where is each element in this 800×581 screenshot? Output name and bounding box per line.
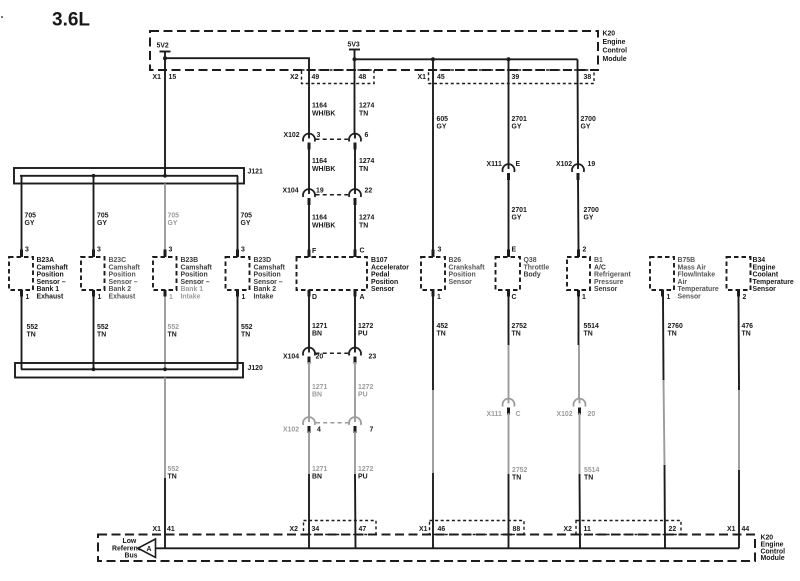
svg-text:GY: GY [97, 220, 107, 227]
svg-text:23: 23 [369, 354, 377, 361]
svg-text:5V3: 5V3 [348, 42, 360, 49]
label 2701 GY lower [512, 207, 527, 222]
sensor B23B label [181, 257, 213, 301]
svg-text:X104: X104 [283, 188, 299, 195]
svg-text:X102: X102 [557, 411, 573, 418]
sensor B107 box [297, 257, 368, 290]
svg-text:Camshaft: Camshaft [254, 264, 286, 271]
svg-text:Bus: Bus [125, 553, 138, 560]
svg-text:TN: TN [168, 474, 177, 481]
wire 476 TN to pin 44 [738, 470, 740, 548]
label 552 TN c gray [168, 324, 180, 339]
svg-text:GY: GY [168, 220, 178, 227]
svg-text:4: 4 [317, 427, 321, 434]
svg-text:Sensor: Sensor [753, 286, 777, 293]
sensor B75B box [650, 257, 674, 290]
connector X102 labels 4 7 [283, 427, 374, 434]
wire 605 GY pin X1-45 to B26 [432, 59, 434, 249]
speck [1, 16, 3, 18]
svg-text:X1: X1 [153, 526, 162, 533]
svg-text:TN: TN [97, 332, 106, 339]
wire 1274 TN lower [354, 204, 356, 250]
svg-text:TN: TN [584, 475, 593, 482]
label 1272 PU gray [358, 384, 373, 399]
svg-text:1272: 1272 [358, 323, 373, 330]
connector X102 labels 3 6 [284, 132, 369, 139]
svg-text:3: 3 [241, 247, 245, 254]
svg-text:88: 88 [513, 526, 521, 533]
svg-text:TN: TN [584, 331, 593, 338]
svg-text:E: E [516, 161, 521, 168]
label 1274 TN [359, 103, 374, 118]
label 1164 WH/BK lower [312, 215, 335, 230]
svg-text:46: 46 [438, 526, 446, 533]
svg-text:452: 452 [437, 323, 449, 330]
sensor B34 label [753, 257, 794, 293]
pin X1-44 [727, 526, 749, 533]
svg-text:GY: GY [437, 124, 447, 131]
connector X104 labels 20 23 [283, 354, 376, 361]
B107 pin A stub [354, 290, 357, 297]
label 476 TN [742, 323, 754, 338]
wire 1272 PU from A [354, 297, 356, 348]
svg-text:44: 44 [742, 526, 750, 533]
label 552 TN low [168, 466, 180, 481]
junction dot drop to pin 45 [431, 57, 435, 61]
svg-text:1274: 1274 [359, 103, 374, 110]
svg-text:TN: TN [742, 331, 751, 338]
svg-text:X102: X102 [556, 161, 572, 168]
B75B pin 1 stub [661, 290, 664, 297]
wire 552 TN J120 to ECM gray [164, 378, 166, 479]
svg-text:X102: X102 [283, 427, 299, 434]
junction dot J120 a [92, 367, 96, 371]
pin X2-49 [290, 74, 319, 81]
svg-text:3: 3 [317, 132, 321, 139]
B107 pin F stub [308, 250, 311, 258]
svg-text:TN: TN [168, 332, 177, 339]
B107 pin D stub [308, 290, 311, 297]
svg-text:PU: PU [358, 392, 368, 399]
svg-text:E: E [512, 247, 517, 254]
svg-text:3: 3 [25, 247, 29, 254]
wire 705 GY to B23A [21, 176, 23, 250]
wire 705 GY to B23C [93, 176, 95, 250]
svg-text:2700: 2700 [581, 116, 596, 123]
svg-text:Position: Position [371, 279, 398, 286]
svg-text:D: D [312, 294, 317, 301]
svg-text:49: 49 [312, 74, 320, 81]
label 1271 BN gray [312, 384, 327, 399]
label 452 TN [437, 323, 449, 338]
connector X102 link dashes [316, 138, 349, 140]
wire 552 TN B23D to J120 [237, 297, 239, 370]
B1 pin 1 stub [577, 290, 580, 297]
svg-text:Bank 1: Bank 1 [181, 286, 204, 293]
label 705 GY c gray [168, 213, 180, 228]
sensor B23C box [81, 257, 105, 290]
sensor B23B box [153, 257, 177, 290]
svg-text:Sensor –: Sensor – [109, 279, 138, 286]
connector X104 link dashes [316, 194, 349, 196]
svg-text:552: 552 [241, 324, 253, 331]
svg-text:X111: X111 [487, 161, 502, 168]
svg-text:B107: B107 [371, 257, 388, 264]
svg-text:1271: 1271 [312, 384, 327, 391]
svg-text:GY: GY [512, 124, 522, 131]
splice pack J121 [14, 168, 244, 184]
wire branch 5V3 to pins 45 39 38 [355, 58, 578, 60]
svg-text:B75B: B75B [678, 257, 696, 264]
svg-text:Exhaust: Exhaust [109, 294, 137, 301]
svg-text:C: C [360, 248, 365, 255]
wire 2752 TN gray low [508, 413, 510, 474]
svg-text:X111: X111 [487, 411, 502, 418]
sensor B75B label [678, 257, 719, 301]
svg-text:1272: 1272 [358, 466, 373, 473]
svg-text:2701: 2701 [512, 207, 527, 214]
svg-text:3: 3 [438, 247, 442, 254]
svg-text:605: 605 [437, 116, 449, 123]
sensor Q38 box [496, 257, 521, 290]
connector X111 pin E [508, 164, 510, 169]
svg-text:X1: X1 [418, 74, 427, 81]
svg-text:41: 41 [167, 526, 175, 533]
connector X104 pin 22 [354, 189, 356, 194]
wire 2701 GY lower [508, 179, 510, 250]
svg-text:1164: 1164 [312, 158, 327, 165]
svg-text:552: 552 [97, 324, 109, 331]
svg-text:2700: 2700 [584, 207, 599, 214]
label 1271 BN low [312, 466, 327, 481]
wire 552 TN B23B to J120 gray [164, 297, 166, 370]
svg-text:GY: GY [581, 124, 591, 131]
label 1164 WH/BK [312, 103, 335, 118]
svg-text:Sensor: Sensor [594, 286, 618, 293]
svg-text:Pedal: Pedal [371, 272, 389, 279]
label 1274 TN lower [359, 215, 374, 230]
svg-text:Exhaust: Exhaust [37, 294, 65, 301]
svg-text:Camshaft: Camshaft [181, 264, 213, 271]
svg-text:Body: Body [524, 272, 541, 279]
wire branch 5V2 to pin X2-49 [165, 58, 309, 134]
svg-text:WH/BK: WH/BK [312, 223, 335, 230]
svg-text:7: 7 [370, 427, 374, 434]
svg-text:Air: Air [678, 279, 688, 286]
wire 1271 BN to pin 34 [308, 474, 310, 548]
junction dot J121 [92, 174, 96, 178]
sensor B107 label [371, 257, 409, 293]
label 1271 BN [312, 323, 327, 338]
connector X102-20 labels gray [557, 411, 596, 418]
connector outline pins 45-39-38 [429, 70, 595, 84]
sensor B23D label [254, 257, 286, 301]
wire 2760 TN B75B down [662, 297, 665, 381]
svg-text:TN: TN [359, 166, 368, 173]
svg-text:Sensor: Sensor [678, 294, 702, 301]
svg-text:BN: BN [312, 474, 322, 481]
svg-text:Engine: Engine [753, 264, 776, 271]
svg-text:552: 552 [168, 324, 180, 331]
pin X1-46 [419, 526, 445, 533]
svg-text:47: 47 [359, 526, 367, 533]
connector X102 pin 19 right [577, 164, 579, 169]
svg-text:Sensor –: Sensor – [181, 279, 210, 286]
svg-text:Coolant: Coolant [753, 272, 779, 279]
svg-text:552: 552 [168, 466, 180, 473]
svg-text:TN: TN [668, 331, 677, 338]
svg-text:X2: X2 [564, 526, 573, 533]
connector outline pins 11-22 [576, 521, 681, 535]
svg-text:Position: Position [449, 272, 476, 279]
label 705 GY b [97, 213, 109, 228]
Q38 pin C stub [507, 290, 510, 297]
svg-text:5514: 5514 [584, 467, 599, 474]
connector X102 link dashes low [316, 422, 349, 424]
B23C pin 3 stub [92, 250, 95, 258]
svg-text:GY: GY [25, 220, 35, 227]
svg-text:3: 3 [169, 247, 173, 254]
svg-text:TN: TN [241, 332, 250, 339]
wire 1272 PU to pin 47 [354, 474, 357, 548]
svg-text:BN: BN [312, 331, 322, 338]
label 1164 WH/BK mid [312, 158, 335, 173]
svg-text:Accelerator: Accelerator [371, 264, 409, 271]
B26 pin 1 stub [432, 290, 435, 297]
connector X111 C labels gray [487, 411, 521, 418]
wire 1164 WH/BK mid [308, 148, 310, 189]
svg-text:B26: B26 [449, 257, 462, 264]
svg-text:Bank 2: Bank 2 [254, 286, 277, 293]
B34 pin 2 stub [737, 290, 740, 297]
svg-text:6: 6 [365, 132, 369, 139]
svg-text:B23C: B23C [109, 257, 127, 264]
svg-text:2701: 2701 [512, 116, 527, 123]
pin X2-34 [290, 526, 320, 533]
svg-text:X1: X1 [727, 526, 736, 533]
svg-text:X2: X2 [290, 526, 299, 533]
label 705 GY d [241, 213, 253, 228]
svg-text:Temperature: Temperature [753, 279, 794, 286]
svg-text:Module: Module [761, 555, 785, 562]
svg-text:2752: 2752 [512, 467, 527, 474]
wire 5514 TN B1 down [578, 297, 580, 346]
svg-text:WH/BK: WH/BK [312, 111, 335, 118]
label 552 TN a [27, 324, 39, 339]
wire 2752 TN to pin 88 [508, 474, 510, 548]
svg-text:1: 1 [437, 294, 441, 301]
wire 2700 GY pin 38 to connector X102 [577, 59, 580, 165]
sensor B23A label [37, 257, 69, 301]
svg-text:34: 34 [312, 526, 320, 533]
5V2 supply tap [157, 43, 171, 52]
svg-text:15: 15 [169, 74, 177, 81]
svg-text:19: 19 [316, 188, 324, 195]
B1 pin 2 stub [577, 250, 580, 258]
label 2752 TN low [512, 467, 527, 482]
connector X104 link dashes low [316, 352, 349, 354]
svg-text:1164: 1164 [312, 103, 327, 110]
B23C pin 1 stub [92, 290, 95, 297]
label 2701 GY [512, 116, 527, 131]
svg-text:Low: Low [123, 538, 137, 545]
svg-text:Sensor: Sensor [449, 279, 473, 286]
svg-text:Sensor –: Sensor – [254, 279, 283, 286]
svg-text:PU: PU [358, 331, 368, 338]
wire 705 GY to B23D [237, 176, 239, 250]
sensor B23A box [9, 257, 33, 290]
wire 452 TN B26 to pin 46 [432, 473, 434, 548]
label 2700 GY lower [584, 207, 599, 222]
wire 2760 TN to pin 22 [664, 465, 667, 548]
B23A pin 1 stub [20, 290, 23, 297]
svg-text:48: 48 [359, 74, 367, 81]
svg-text:Intake: Intake [254, 294, 274, 301]
svg-text:X104: X104 [283, 354, 299, 361]
svg-text:TN: TN [27, 332, 36, 339]
svg-text:552: 552 [27, 324, 39, 331]
label 2700 GY [581, 116, 596, 131]
wire 1272 PU gray mid [354, 362, 356, 417]
svg-text:B23B: B23B [181, 257, 199, 264]
label 5514 TN [584, 323, 599, 338]
svg-text:Temperature: Temperature [678, 286, 719, 293]
svg-text:Control: Control [603, 48, 628, 55]
B26 pin 3 stub [432, 250, 435, 258]
svg-text:F: F [312, 248, 316, 255]
connector outline pins 46-88 [430, 521, 525, 535]
label 2760 TN [668, 323, 683, 338]
svg-text:476: 476 [742, 323, 754, 330]
svg-text:B23D: B23D [254, 257, 272, 264]
wire 1164 WH/BK lower [308, 204, 310, 250]
label 552 TN d [241, 324, 253, 339]
svg-text:3: 3 [97, 247, 101, 254]
svg-text:20: 20 [316, 354, 324, 361]
svg-text:2: 2 [583, 247, 587, 254]
svg-text:1274: 1274 [359, 215, 374, 222]
pin X1-41 [153, 526, 175, 533]
junction dot J121 b [163, 174, 167, 178]
connector X104 pin 23 [354, 348, 356, 353]
label 5514 TN low [584, 467, 599, 482]
wire 2752 TN Q38 down [508, 297, 510, 346]
svg-text:38: 38 [584, 74, 592, 81]
wire 1271 BN gray mid [308, 362, 310, 417]
bus triangle A [138, 539, 156, 557]
svg-text:Sensor: Sensor [371, 286, 395, 293]
svg-text:Engine: Engine [761, 542, 784, 549]
wire 705 GY from 5V2 to J121 [164, 52, 166, 177]
svg-text:Position: Position [254, 272, 281, 279]
svg-text:GY: GY [584, 215, 594, 222]
connector X111 labels [487, 161, 521, 168]
wire 1274 TN from 5V3 down [354, 50, 356, 134]
svg-text:Position: Position [109, 272, 136, 279]
sensor Q38 label [524, 257, 550, 279]
svg-text:Crankshaft: Crankshaft [449, 264, 486, 271]
svg-text:1164: 1164 [312, 215, 327, 222]
svg-text:1: 1 [242, 294, 246, 301]
svg-text:X1: X1 [153, 74, 162, 81]
svg-text:C: C [512, 294, 517, 301]
svg-text:TN: TN [359, 223, 368, 230]
Q38 pin E stub [507, 250, 510, 258]
svg-text:Bank 2: Bank 2 [109, 286, 132, 293]
svg-text:A: A [360, 294, 365, 301]
pin X1-45 [418, 74, 445, 81]
svg-text:22: 22 [365, 188, 373, 195]
connector X102 pin 20 gray [579, 399, 581, 404]
wire 2701 GY pin 39 to connector X111 [508, 59, 510, 165]
B23B pin 1 stub [164, 290, 167, 297]
svg-text:WH/BK: WH/BK [312, 166, 335, 173]
wire 2760 TN gray band [664, 380, 665, 465]
wire 1271 BN gray low [308, 432, 310, 475]
wire 476 TN B34 down [738, 297, 741, 391]
svg-text:Position: Position [181, 272, 208, 279]
svg-text:Flow/Intake: Flow/Intake [678, 272, 716, 279]
low reference bus wire [156, 547, 740, 549]
svg-text:Refrigerant: Refrigerant [594, 272, 631, 279]
svg-text:X102: X102 [284, 132, 300, 139]
connector X102 pin 7 [354, 417, 356, 422]
svg-text:Q38: Q38 [524, 257, 537, 264]
junction dot J120 b [163, 367, 167, 371]
wire 1271 BN from D [308, 297, 310, 348]
ECM K20 top label [603, 31, 628, 64]
svg-text:Engine: Engine [603, 39, 626, 46]
svg-text:2752: 2752 [512, 323, 527, 330]
label 2752 TN [512, 323, 527, 338]
svg-text:Module: Module [603, 56, 627, 63]
svg-text:2: 2 [743, 294, 747, 301]
svg-text:1: 1 [98, 294, 102, 301]
svg-text:705: 705 [241, 213, 253, 220]
svg-text:22: 22 [669, 526, 677, 533]
svg-text:1: 1 [667, 294, 671, 301]
junction dot 5V3 branch [353, 57, 357, 61]
connector outline pins 34-47 [304, 521, 377, 535]
svg-text:J121: J121 [248, 169, 263, 176]
svg-text:TN: TN [512, 475, 521, 482]
ECM K20 top dashed box [150, 31, 598, 70]
ECM K20 bottom dashed box [98, 535, 755, 562]
svg-text:TN: TN [437, 331, 446, 338]
sensor B1 box [567, 257, 590, 290]
sensor B26 box [421, 257, 445, 290]
connector X104 pin 19 [308, 189, 310, 194]
svg-text:20: 20 [588, 411, 596, 418]
svg-text:B1: B1 [594, 257, 603, 264]
connector X102 pin 6 [354, 134, 356, 139]
sensor B1 label [594, 257, 631, 293]
svg-text:A/C: A/C [594, 264, 606, 271]
label 1274 TN mid [359, 158, 374, 173]
svg-text:Camshaft: Camshaft [109, 264, 141, 271]
wire 452 TN B26 gray band [432, 390, 434, 473]
wire 552 TN B23A to J120 [21, 297, 23, 370]
connector X102-19 labels [556, 161, 595, 168]
svg-text:45: 45 [437, 74, 445, 81]
svg-text:Intake: Intake [181, 294, 201, 301]
svg-text:PU: PU [358, 474, 368, 481]
svg-text:GY: GY [241, 220, 251, 227]
connector outline pins 49-48 [302, 70, 375, 84]
svg-text:Sensor –: Sensor – [37, 279, 66, 286]
wire 1274 TN mid [354, 148, 356, 189]
wire 476 TN gray band [738, 390, 740, 470]
